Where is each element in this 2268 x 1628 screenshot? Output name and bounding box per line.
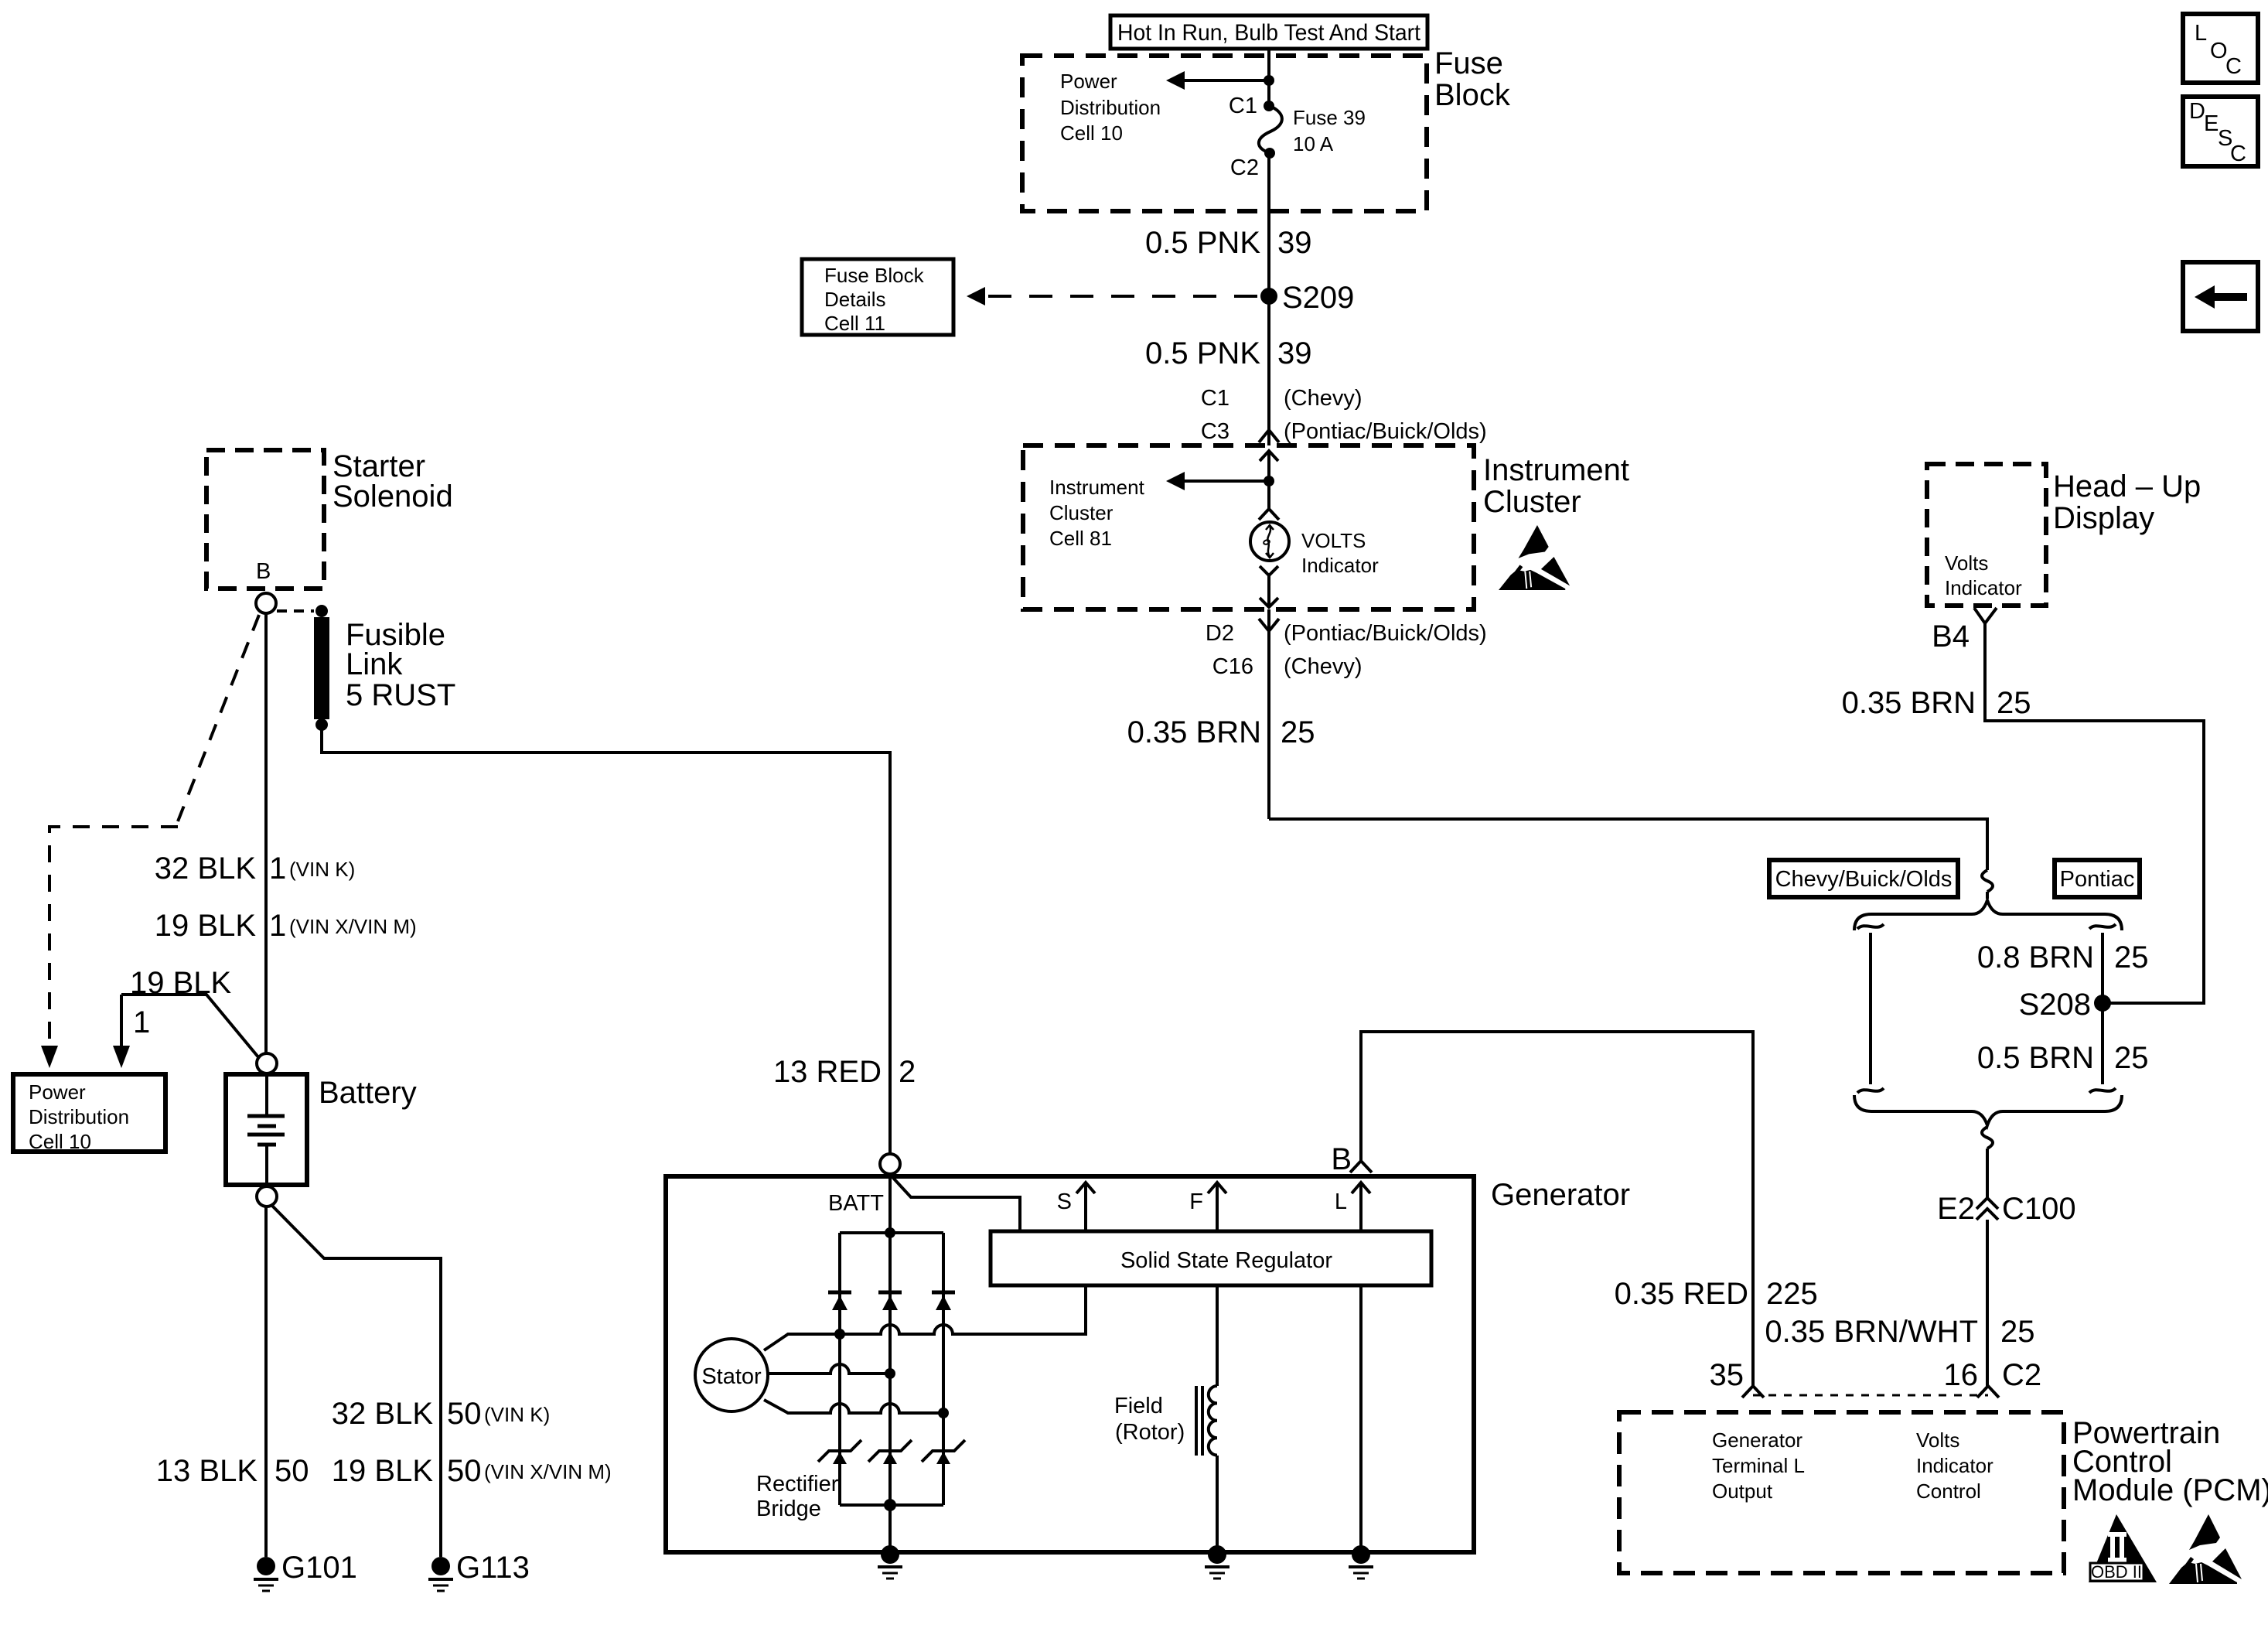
svg-text:(Chevy): (Chevy) bbox=[1284, 386, 1363, 411]
svg-text:Rectifier: Rectifier bbox=[756, 1472, 839, 1497]
svg-text:2: 2 bbox=[899, 1055, 916, 1089]
svg-text:F: F bbox=[1189, 1189, 1203, 1214]
svg-text:Module (PCM): Module (PCM) bbox=[2072, 1473, 2268, 1507]
svg-text:Generator: Generator bbox=[1491, 1178, 1630, 1212]
svg-text:Link: Link bbox=[346, 647, 403, 681]
svg-text:G101: G101 bbox=[281, 1551, 357, 1585]
svg-text:B: B bbox=[256, 559, 271, 584]
svg-text:39: 39 bbox=[1277, 226, 1312, 260]
svg-text:C3: C3 bbox=[1201, 419, 1229, 444]
svg-text:50: 50 bbox=[447, 1454, 482, 1488]
svg-text:35: 35 bbox=[1710, 1358, 1744, 1392]
svg-text:0.8 BRN: 0.8 BRN bbox=[1977, 940, 2094, 974]
svg-text:Generator: Generator bbox=[1712, 1428, 1802, 1452]
svg-text:50: 50 bbox=[447, 1397, 482, 1431]
svg-text:225: 225 bbox=[1766, 1277, 1818, 1311]
svg-text:0.35 BRN: 0.35 BRN bbox=[1842, 686, 1976, 720]
svg-text:1: 1 bbox=[133, 1005, 150, 1039]
svg-text:Cell 81: Cell 81 bbox=[1049, 527, 1112, 550]
svg-text:S208: S208 bbox=[2019, 988, 2091, 1022]
svg-text:13 RED: 13 RED bbox=[773, 1055, 882, 1089]
svg-text:50: 50 bbox=[275, 1454, 309, 1488]
svg-text:Head – Up: Head – Up bbox=[2053, 469, 2201, 503]
svg-text:L: L bbox=[1335, 1189, 1347, 1214]
svg-text:Fuse 39: Fuse 39 bbox=[1293, 106, 1366, 129]
svg-text:S209: S209 bbox=[1282, 281, 1354, 315]
svg-text:E2: E2 bbox=[1937, 1192, 1975, 1226]
svg-text:0.35 RED: 0.35 RED bbox=[1615, 1277, 1748, 1311]
svg-text:C2: C2 bbox=[1230, 155, 1259, 180]
svg-text:10 A: 10 A bbox=[1293, 132, 1334, 155]
svg-text:39: 39 bbox=[1277, 336, 1312, 370]
svg-text:Starter: Starter bbox=[333, 449, 425, 483]
svg-text:Power: Power bbox=[1060, 70, 1117, 93]
svg-text:0.35 BRN/WHT: 0.35 BRN/WHT bbox=[1765, 1315, 1978, 1349]
svg-text:25: 25 bbox=[1997, 686, 2031, 720]
svg-text:Block: Block bbox=[1434, 78, 1511, 112]
svg-text:C2: C2 bbox=[2002, 1358, 2041, 1392]
svg-text:Hot In Run, Bulb Test And Star: Hot In Run, Bulb Test And Start bbox=[1117, 20, 1421, 46]
svg-text:25: 25 bbox=[1281, 715, 1315, 749]
svg-text:Display: Display bbox=[2053, 501, 2154, 535]
svg-text:0.5 PNK: 0.5 PNK bbox=[1145, 336, 1260, 370]
svg-text:Chevy/Buick/Olds: Chevy/Buick/Olds bbox=[1775, 867, 1953, 892]
svg-text:Instrument: Instrument bbox=[1483, 453, 1629, 487]
svg-text:Distribution: Distribution bbox=[29, 1105, 129, 1128]
svg-text:Volts: Volts bbox=[1945, 551, 1988, 575]
svg-text:C100: C100 bbox=[2002, 1192, 2076, 1226]
svg-text:Distribution: Distribution bbox=[1060, 96, 1161, 119]
svg-text:13 BLK: 13 BLK bbox=[156, 1454, 258, 1488]
svg-text:Details: Details bbox=[824, 288, 885, 311]
svg-text:C1: C1 bbox=[1229, 94, 1257, 118]
svg-text:32 BLK: 32 BLK bbox=[155, 852, 257, 886]
svg-text:Instrument: Instrument bbox=[1049, 476, 1145, 499]
svg-text:E: E bbox=[2204, 111, 2219, 136]
svg-text:D2: D2 bbox=[1206, 621, 1234, 646]
svg-text:Cell 10: Cell 10 bbox=[29, 1130, 91, 1153]
svg-text:16: 16 bbox=[1944, 1358, 1979, 1392]
svg-text:B4: B4 bbox=[1932, 619, 1970, 654]
svg-text:S: S bbox=[1057, 1189, 1072, 1214]
svg-text:(VIN X/VIN M): (VIN X/VIN M) bbox=[484, 1460, 612, 1483]
svg-text:19 BLK: 19 BLK bbox=[155, 909, 257, 943]
svg-text:Bridge: Bridge bbox=[756, 1497, 821, 1521]
svg-text:1: 1 bbox=[269, 909, 286, 943]
svg-text:C: C bbox=[2225, 54, 2242, 79]
svg-text:C16: C16 bbox=[1212, 654, 1253, 679]
svg-text:Fuse Block: Fuse Block bbox=[824, 264, 925, 287]
svg-text:(VIN K): (VIN K) bbox=[289, 858, 355, 881]
svg-text:(VIN X/VIN M): (VIN X/VIN M) bbox=[289, 915, 417, 938]
svg-text:25: 25 bbox=[2114, 1041, 2149, 1075]
svg-text:0.5 BRN: 0.5 BRN bbox=[1977, 1041, 2094, 1075]
svg-text:0.5 PNK: 0.5 PNK bbox=[1145, 226, 1260, 260]
svg-text:Stator: Stator bbox=[701, 1364, 762, 1389]
svg-text:Control: Control bbox=[1916, 1480, 1981, 1503]
svg-text:Pontiac: Pontiac bbox=[2060, 867, 2135, 892]
svg-text:OBD II: OBD II bbox=[2091, 1562, 2142, 1582]
svg-text:Terminal L: Terminal L bbox=[1712, 1454, 1805, 1477]
svg-text:19 BLK: 19 BLK bbox=[332, 1454, 434, 1488]
svg-text:Battery: Battery bbox=[319, 1076, 417, 1110]
svg-text:32 BLK: 32 BLK bbox=[332, 1397, 434, 1431]
svg-text:Output: Output bbox=[1712, 1480, 1773, 1503]
svg-text:(Pontiac/Buick/Olds): (Pontiac/Buick/Olds) bbox=[1284, 621, 1487, 646]
svg-text:1: 1 bbox=[269, 852, 286, 886]
svg-text:L: L bbox=[2195, 21, 2207, 46]
svg-text:G113: G113 bbox=[456, 1551, 530, 1585]
svg-text:Solenoid: Solenoid bbox=[333, 480, 453, 514]
svg-text:Fuse: Fuse bbox=[1434, 46, 1503, 80]
svg-text:Volts: Volts bbox=[1916, 1428, 1959, 1452]
svg-text:25: 25 bbox=[2000, 1315, 2035, 1349]
svg-text:Cell 11: Cell 11 bbox=[824, 312, 885, 335]
svg-text:B: B bbox=[1331, 1142, 1352, 1176]
svg-text:Cell 10: Cell 10 bbox=[1060, 121, 1123, 145]
svg-text:Power: Power bbox=[29, 1080, 86, 1104]
svg-text:Solid State Regulator: Solid State Regulator bbox=[1120, 1248, 1332, 1273]
svg-text:Indicator: Indicator bbox=[1301, 554, 1379, 577]
svg-text:BATT: BATT bbox=[828, 1191, 884, 1216]
svg-text:25: 25 bbox=[2114, 940, 2149, 974]
svg-text:Indicator: Indicator bbox=[1945, 576, 2022, 599]
svg-text:(Pontiac/Buick/Olds): (Pontiac/Buick/Olds) bbox=[1284, 419, 1487, 444]
svg-text:5 RUST: 5 RUST bbox=[346, 678, 455, 712]
svg-text:C1: C1 bbox=[1201, 386, 1229, 411]
svg-text:Cluster: Cluster bbox=[1049, 501, 1114, 524]
svg-text:(Chevy): (Chevy) bbox=[1284, 654, 1363, 679]
svg-text:(Rotor): (Rotor) bbox=[1115, 1420, 1185, 1445]
svg-text:Field: Field bbox=[1114, 1394, 1163, 1418]
svg-text:Cluster: Cluster bbox=[1483, 485, 1581, 519]
svg-text:VOLTS: VOLTS bbox=[1301, 529, 1366, 552]
svg-text:D: D bbox=[2189, 99, 2205, 124]
svg-text:0.35 BRN: 0.35 BRN bbox=[1127, 715, 1261, 749]
svg-text:(VIN K): (VIN K) bbox=[484, 1403, 550, 1426]
svg-text:C: C bbox=[2230, 142, 2246, 166]
svg-text:Indicator: Indicator bbox=[1916, 1454, 1993, 1477]
